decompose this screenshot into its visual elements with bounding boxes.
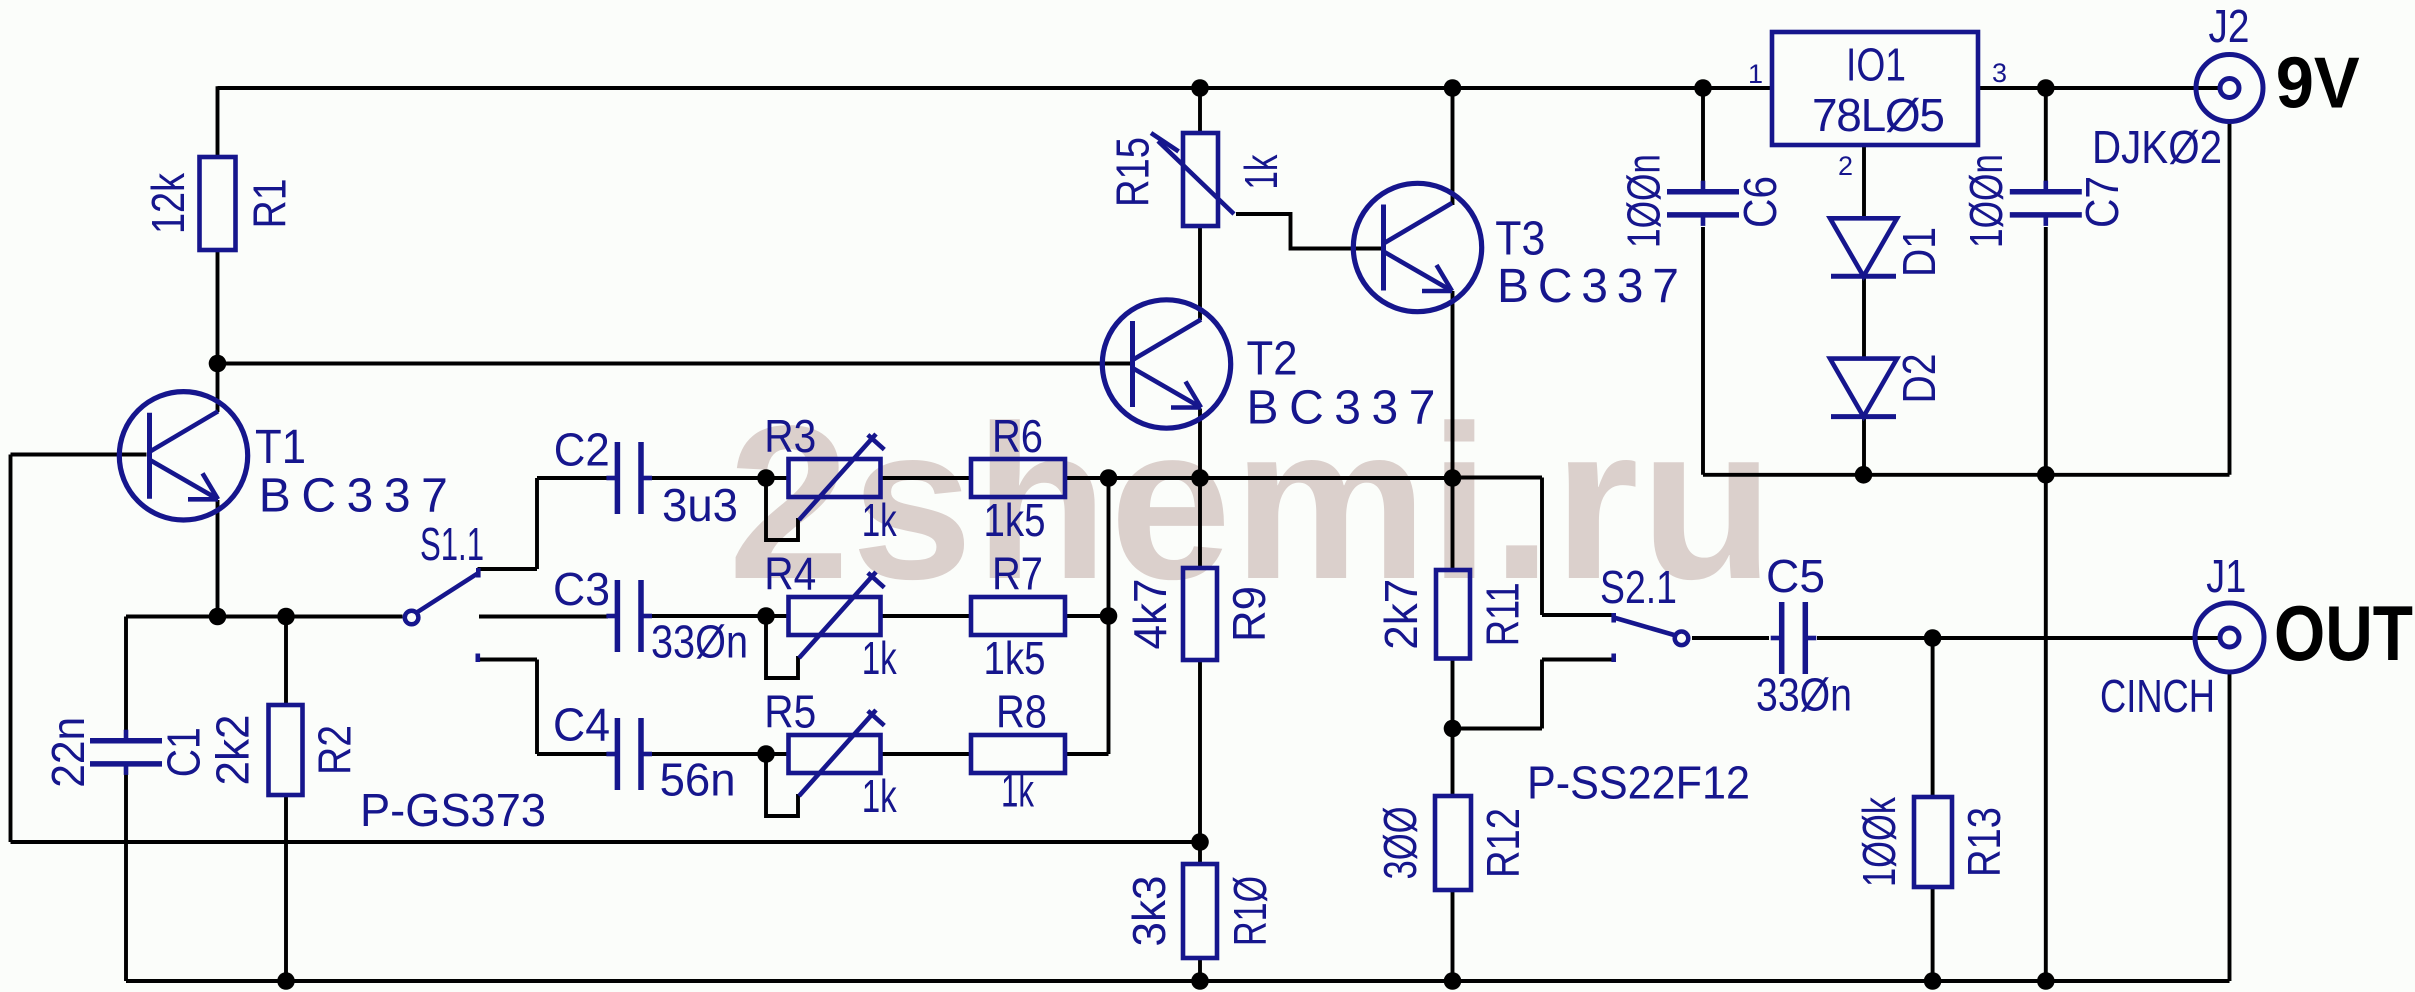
junction top rail / T3 collector [1444, 79, 1462, 97]
svg-text:D2: D2 [1893, 354, 1945, 404]
resistor R9 body [1183, 568, 1217, 660]
wire T1 base [11, 453, 147, 457]
switch S2.1 unused throw tick [1611, 654, 1616, 663]
svg-text:1: 1 [1748, 59, 1763, 89]
trimmer R15 body [1183, 133, 1218, 226]
wire R4 wiper return [766, 616, 798, 678]
wire R13 bottom lead [1931, 887, 1935, 981]
wire T1 collector lead [216, 364, 220, 413]
svg-text:3: 3 [1992, 58, 2007, 88]
svg-text:R1Ø: R1Ø [1224, 876, 1276, 946]
regulator IO1 78L05 box [1772, 32, 1978, 145]
wire top rail to R15 [1198, 88, 1202, 133]
svg-text:P-GS373: P-GS373 [360, 784, 546, 836]
svg-text:9V: 9V [2276, 44, 2360, 124]
connector J1 (CINCH output jack) [2195, 603, 2264, 672]
wire IO1 pin3 to J2 [1978, 86, 2220, 90]
wire S1.1 contact-3 stub [478, 658, 538, 662]
svg-text:1k: 1k [862, 770, 898, 822]
wire R5 to R8 [881, 752, 972, 756]
wire S2.1 contact-1 vertical [1540, 478, 1544, 616]
wire S2.1 pole to C5 [1692, 636, 1769, 640]
wire R3 wiper return [766, 478, 798, 540]
diode D1 [1830, 218, 1897, 276]
junction C5-J1 / R13 [1924, 629, 1942, 647]
svg-text:1k: 1k [862, 494, 898, 546]
svg-text:3u3: 3u3 [662, 479, 738, 531]
svg-text:T2: T2 [1247, 333, 1298, 386]
connector J2 (DJK02 power jack) [2196, 55, 2263, 122]
resistor R8 body [971, 735, 1065, 773]
resistor R2 body [269, 705, 303, 795]
svg-text:1ØØn: 1ØØn [1617, 154, 1669, 248]
wire R2 bottom lead [284, 795, 288, 981]
resistor R6 body [971, 459, 1065, 497]
wire T3 emitter node to S2.1 [1453, 476, 1543, 480]
capacitor C1 plates [90, 730, 162, 775]
capacitor C6 plates [1667, 181, 1739, 226]
junction R1 / T1 collector [209, 355, 227, 373]
junction top rail / R15 [1191, 79, 1209, 97]
trimmer R4 arrow [799, 572, 884, 658]
svg-text:3k3: 3k3 [1123, 876, 1175, 947]
wire C1 bottom lead [124, 773, 128, 981]
trimmer R5 arrow [799, 710, 884, 796]
wire R6 to T3 emitter node [1065, 476, 1453, 480]
capacitor C7 plates [2010, 181, 2082, 226]
wire R13 top lead [1931, 638, 1935, 797]
wire S1.1 contact-2 to C3 [479, 615, 608, 619]
wire node to R4 [766, 614, 789, 618]
wire R10 bottom to ground [1198, 958, 1202, 981]
wire R11 bottom to node [1451, 659, 1455, 729]
trimmer R15 arrow [1151, 133, 1234, 214]
svg-text:R11: R11 [1477, 582, 1529, 646]
svg-text:J2: J2 [2209, 0, 2250, 52]
wire S2.1 contact-1 stub [1542, 613, 1614, 617]
trimmer R5 body [789, 735, 881, 773]
wire regulator ground rail [1703, 473, 2230, 477]
wire to C2 left [537, 476, 608, 480]
svg-text:D1: D1 [1893, 227, 1945, 277]
svg-text:3ØØ: 3ØØ [1374, 807, 1426, 880]
wire R7 to vertical [1065, 614, 1109, 618]
wire S1.1 contact-3 vertical [535, 660, 539, 755]
svg-text:DJKØ2: DJKØ2 [2092, 121, 2222, 173]
wire C5 to J1 signal [1817, 636, 2220, 640]
svg-text:C1: C1 [158, 727, 210, 777]
svg-text:T1: T1 [255, 421, 306, 474]
svg-text:C2: C2 [554, 424, 610, 476]
svg-text:2: 2 [1838, 151, 1853, 181]
wire C6 bottom lead [1701, 227, 1705, 475]
resistor R11 body [1436, 570, 1470, 659]
svg-text:R5: R5 [764, 686, 816, 738]
capacitor C4 plates [606, 718, 652, 790]
junction C2 / R3 [757, 469, 775, 487]
transistor T3 (BC337) [1353, 183, 1481, 311]
junction D2 / ground rail [1855, 466, 1873, 484]
svg-text:2k7: 2k7 [1375, 579, 1427, 650]
svg-text:R2: R2 [309, 725, 361, 775]
svg-text:IO1: IO1 [1846, 39, 1906, 91]
wire R3 to R6 [881, 476, 972, 480]
svg-text:J1: J1 [2206, 550, 2246, 602]
svg-text:1k5: 1k5 [984, 632, 1046, 684]
wire C1 top lead [124, 617, 128, 733]
junction ground drop / ground rail [2037, 972, 2055, 990]
capacitor C3 plates [606, 580, 652, 652]
wire D2 to rail [1862, 417, 1866, 475]
svg-text:R13: R13 [1958, 807, 2010, 877]
svg-text:CINCH: CINCH [2100, 670, 2215, 722]
wire S1.1 contact-1 stub [478, 567, 538, 571]
svg-text:R9: R9 [1223, 586, 1275, 642]
wire node to R5 [766, 752, 789, 756]
wire C4 right to node [650, 752, 766, 756]
svg-text:R12: R12 [1477, 808, 1529, 878]
wire J1 shell to ground [2228, 672, 2232, 981]
junction R6 right [1100, 469, 1118, 487]
wire S1.1 contact-1 vertical [535, 478, 539, 569]
wire node to R11 top [1451, 478, 1455, 571]
wire IO1 pin2 to D1 [1862, 145, 1866, 218]
junction R2 / ground [277, 972, 295, 990]
wire C2 right to node [650, 476, 766, 480]
svg-text:S1.1: S1.1 [420, 518, 484, 570]
capacitor C5 plates [1771, 602, 1817, 674]
svg-text:R6: R6 [992, 410, 1043, 462]
resistor R12 body [1435, 796, 1471, 890]
resistor R13 body [1914, 797, 1952, 887]
svg-text:1ØØn: 1ØØn [1960, 154, 2012, 248]
wire S2.1 contact-2 stub [1542, 658, 1614, 662]
wire S2.1 contact-2 to R11 node [1453, 727, 1543, 731]
svg-text:T3: T3 [1495, 213, 1545, 266]
junction feedback / R9-R10 [1191, 833, 1209, 851]
svg-text:R7: R7 [992, 548, 1043, 600]
wire node to R10 top [1198, 842, 1202, 864]
svg-text:1k5: 1k5 [984, 494, 1046, 546]
svg-text:22n: 22n [42, 717, 94, 788]
wire to C4 left [537, 752, 608, 756]
junction top rail / C6 [1694, 79, 1712, 97]
switch S2.1 pole and lever [1614, 613, 1689, 645]
wire R9 bottom to node [1198, 660, 1202, 842]
svg-text:R3: R3 [764, 410, 816, 462]
wire left feedback vertical [9, 455, 13, 843]
svg-text:12k: 12k [142, 172, 194, 234]
wire R6/R7/R8 right vertical link [1107, 478, 1111, 754]
junction T2 emitter / R9 [1191, 469, 1209, 487]
capacitor C2 plates [606, 442, 652, 514]
switch S1.1 pole and lever [405, 568, 478, 624]
junction R13 / ground [1924, 972, 1942, 990]
junction T3 emitter / S2 branch [1444, 469, 1462, 487]
wire C7 top lead [2044, 88, 2048, 181]
resistor R10 body [1183, 864, 1217, 958]
trimmer R4 body [789, 597, 881, 635]
wire T1 collector node to T2 base [218, 362, 1131, 366]
wire C7 bottom / ground drop [2044, 227, 2048, 981]
svg-text:OUT: OUT [2274, 589, 2413, 677]
svg-text:R4: R4 [764, 548, 816, 600]
wire node to R3 [766, 476, 789, 480]
wire emitter row to S1.1 pole [126, 615, 403, 619]
svg-text:78LØ5: 78LØ5 [1812, 89, 1945, 141]
wire top rail (9V) from R1 corner to IO1 pin1 [218, 86, 1773, 90]
wire node to R9 top [1198, 478, 1202, 569]
svg-text:4k7: 4k7 [1124, 579, 1176, 650]
junction C3 / R4 [757, 607, 775, 625]
junction C4 / R5 [757, 745, 775, 763]
svg-text:P-SS22F12: P-SS22F12 [1527, 757, 1750, 809]
transistor T1 (BC337) [119, 392, 247, 520]
junction top rail / C7 [2037, 79, 2055, 97]
svg-text:2k2: 2k2 [206, 715, 258, 786]
junction R7 right [1100, 607, 1118, 625]
wire R4 to R7 [881, 614, 972, 618]
wire S2.1 contact-2 vertical [1540, 660, 1544, 729]
junction R10 / ground [1191, 972, 1209, 990]
svg-text:R15: R15 [1107, 137, 1159, 207]
wire J2 shell to rail [2228, 122, 2232, 475]
wire T3 emitter lead [1451, 291, 1455, 478]
junction C7 / ground rail [2037, 466, 2055, 484]
junction T1 emitter row [209, 608, 227, 626]
svg-text:1k: 1k [862, 632, 898, 684]
svg-text:33Øn: 33Øn [651, 616, 748, 668]
wire T1 emitter lead [216, 500, 220, 617]
wire R12 bottom to ground [1451, 890, 1455, 981]
svg-text:1k: 1k [1235, 154, 1287, 190]
wire T2 emitter lead [1198, 409, 1202, 478]
svg-text:S2.1: S2.1 [1600, 561, 1677, 613]
svg-text:33Øn: 33Øn [1756, 669, 1852, 721]
svg-text:R1: R1 [244, 179, 296, 229]
wire R15 wiper to T3 base [1236, 214, 1382, 249]
trimmer R3 body [789, 459, 881, 497]
wire R2 top lead [284, 617, 288, 706]
wire ground bottom rail [126, 979, 2230, 983]
wire R5 wiper return [766, 754, 798, 816]
svg-text:R8: R8 [996, 686, 1047, 738]
wire feedback horizontal to R10 node [11, 840, 1201, 844]
wire R1 top lead [216, 86, 220, 157]
svg-text:C7: C7 [2076, 176, 2128, 228]
svg-text:C6: C6 [1734, 176, 1786, 228]
trimmer R3 arrow [799, 434, 884, 520]
svg-text:56n: 56n [660, 754, 736, 806]
resistor R7 body [971, 597, 1065, 635]
switch S1.1 unused throw tick [475, 654, 480, 663]
resistor R1 body [200, 157, 236, 250]
wire R1 bottom lead to node [216, 250, 220, 364]
wire D1 to D2 [1862, 276, 1866, 358]
svg-text:C5: C5 [1766, 550, 1825, 602]
svg-text:C4: C4 [553, 699, 610, 751]
junction R12 / ground [1444, 972, 1462, 990]
svg-text:1k: 1k [1001, 765, 1035, 817]
wire node to R12 top [1451, 729, 1455, 797]
svg-text:BC337: BC337 [1497, 260, 1679, 313]
wire R8 to vertical [1065, 752, 1109, 756]
wire top rail to T3 collector [1451, 88, 1455, 205]
wire R15 to T2 collector [1198, 226, 1202, 320]
wire C6 top lead [1701, 88, 1705, 181]
transistor T2 (BC337) [1102, 300, 1230, 428]
svg-text:C3: C3 [553, 563, 610, 615]
junction R2 top [277, 608, 295, 626]
diode D2 [1830, 359, 1897, 417]
svg-text:1ØØk: 1ØØk [1853, 796, 1905, 887]
wire C3 right to node [650, 614, 766, 618]
junction R11 bottom / S2 contact [1444, 720, 1462, 738]
